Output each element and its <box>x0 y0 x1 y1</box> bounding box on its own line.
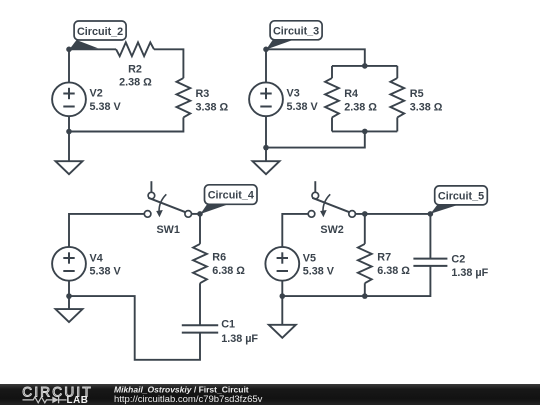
svg-text:V5: V5 <box>303 252 316 264</box>
label Circuit_4 <box>200 185 257 214</box>
wire <box>355 214 430 244</box>
svg-text:V4: V4 <box>90 252 103 264</box>
svg-text:C2: C2 <box>451 254 465 266</box>
voltage source V3 <box>249 49 283 147</box>
node (V5 bottom) <box>280 293 286 299</box>
R4 value labels <box>344 88 377 113</box>
resistor R3 <box>177 78 191 117</box>
capacitor C1 <box>182 325 218 332</box>
R7 value labels <box>377 252 410 277</box>
svg-text:R7: R7 <box>377 252 391 264</box>
svg-text:6.38 Ω: 6.38 Ω <box>212 265 245 277</box>
resistor R2 <box>116 42 154 56</box>
resistor R7 <box>358 244 372 283</box>
svg-text:V2: V2 <box>90 88 103 100</box>
svg-text:LAB: LAB <box>67 395 89 405</box>
C1 value labels <box>221 319 258 345</box>
node (V4 bottom) <box>66 293 72 299</box>
voltage source V4 <box>52 247 86 296</box>
svg-text:V3: V3 <box>287 88 300 100</box>
wire (parallel top rail) <box>332 66 397 78</box>
label Circuit_3 <box>266 21 322 50</box>
capacitor C2 <box>413 259 447 266</box>
wire <box>69 296 200 360</box>
wire <box>282 266 430 296</box>
svg-text:3.38 Ω: 3.38 Ω <box>410 101 443 113</box>
V3 value labels <box>287 88 319 113</box>
node (rail bottom) <box>362 129 368 135</box>
ground <box>253 148 280 175</box>
R2 value labels <box>119 64 152 89</box>
node (V2 bottom) <box>66 129 72 135</box>
ground <box>56 132 83 175</box>
label Circuit_2 <box>69 21 126 50</box>
wire <box>266 131 365 147</box>
V5 value labels <box>303 252 335 277</box>
wire <box>429 214 431 259</box>
SW1 label <box>156 224 179 236</box>
node (R7 bottom) <box>362 293 368 299</box>
wire <box>282 214 308 247</box>
svg-text:Circuit_4: Circuit_4 <box>208 190 254 202</box>
resistor R4 <box>325 78 339 117</box>
svg-text:SW1: SW1 <box>156 224 179 236</box>
SW2 label <box>320 224 343 236</box>
switch SW2 <box>308 181 355 217</box>
wire <box>266 49 365 66</box>
wire (parallel bottom rail) <box>332 117 397 131</box>
svg-text:C1: C1 <box>221 319 235 331</box>
R5 value labels <box>410 88 443 113</box>
CircuitLab logo text LAB <box>67 395 89 405</box>
svg-text:6.38 Ω: 6.38 Ω <box>377 265 410 277</box>
svg-text:3.38 Ω: 3.38 Ω <box>196 101 229 113</box>
switch SW1 <box>144 181 191 217</box>
ground <box>269 296 296 338</box>
node (rail top) <box>362 63 368 69</box>
svg-text:Circuit_2: Circuit_2 <box>77 26 123 38</box>
node (SW1-R6) <box>197 211 203 217</box>
svg-text:2.38 Ω: 2.38 Ω <box>344 101 377 113</box>
svg-text:http://circuitlab.com/c79b7sd3: http://circuitlab.com/c79b7sd3fz65v <box>114 394 263 405</box>
wire <box>154 49 183 78</box>
label Circuit_5 <box>431 186 488 214</box>
R3 value labels <box>196 88 229 113</box>
wire <box>69 214 144 247</box>
ground <box>56 296 83 322</box>
C2 value labels <box>451 254 488 279</box>
svg-text:1.38 µF: 1.38 µF <box>221 333 258 345</box>
svg-text:5.38 V: 5.38 V <box>90 266 122 278</box>
wire <box>199 283 201 325</box>
node (V3 bottom) <box>263 145 269 151</box>
CircuitLab logo doodle (wire, resistor, diode) <box>23 397 67 404</box>
svg-text:R2: R2 <box>128 64 142 76</box>
resistor R6 <box>193 244 207 283</box>
svg-text:Circuit_3: Circuit_3 <box>273 26 319 38</box>
wire <box>364 283 366 296</box>
node (SW2-R7) <box>362 211 368 217</box>
svg-text:R3: R3 <box>196 88 210 100</box>
footer bar <box>0 384 540 405</box>
R6 value labels <box>212 252 245 277</box>
svg-text:R4: R4 <box>344 88 358 100</box>
voltage source V5 <box>265 247 299 296</box>
footer url text <box>114 394 263 405</box>
svg-text:2.38 Ω: 2.38 Ω <box>119 76 152 88</box>
footer title text <box>114 385 249 395</box>
svg-text:SW2: SW2 <box>320 224 343 236</box>
svg-text:1.38 µF: 1.38 µF <box>451 267 488 279</box>
svg-text:5.38 V: 5.38 V <box>287 101 319 113</box>
V4 value labels <box>90 252 122 277</box>
CircuitLab logo text CIRCUIT <box>22 384 93 399</box>
wire <box>69 48 116 50</box>
resistor R5 <box>390 78 404 117</box>
svg-text:R5: R5 <box>410 88 424 100</box>
node (C2 top corner) <box>428 211 434 217</box>
wire <box>69 117 183 131</box>
wire <box>192 214 201 244</box>
svg-text:5.38 V: 5.38 V <box>303 266 335 278</box>
node (V2 top) <box>66 47 72 53</box>
svg-text:5.38 V: 5.38 V <box>90 101 122 113</box>
svg-text:Circuit_5: Circuit_5 <box>438 191 484 203</box>
voltage source V2 <box>52 49 86 131</box>
node (V3 top) <box>263 47 269 53</box>
V2 value labels <box>90 88 122 113</box>
svg-text:R6: R6 <box>212 252 226 264</box>
